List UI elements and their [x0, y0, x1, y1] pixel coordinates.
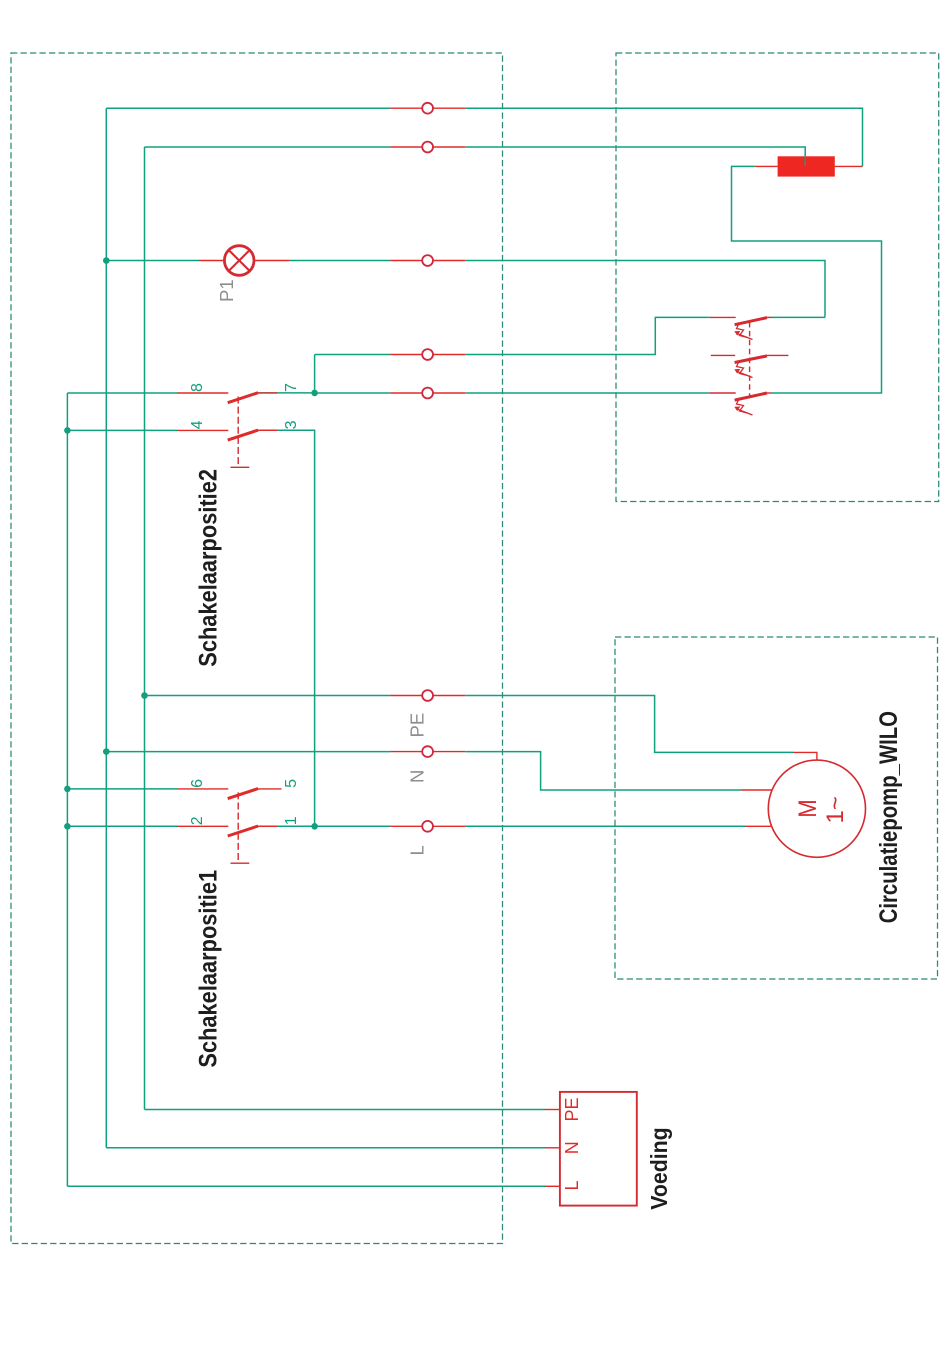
motor L pin	[745, 825, 772, 827]
switch Schakelaarpositie2 pole 4-3	[177, 430, 258, 440]
wire: heater left pin to thermal contact T3	[732, 166, 882, 393]
junction dot: L bus row2	[64, 823, 71, 830]
wire: switch2 pole8 right to junction	[258, 392, 315, 394]
svg-text:N: N	[407, 770, 428, 783]
junction dot: PE bus PE row	[141, 692, 148, 699]
svg-text:Schakelaarpositie1: Schakelaarpositie1	[194, 870, 222, 1068]
junction dot: node contact7	[311, 390, 318, 397]
svg-text:PE: PE	[562, 1097, 582, 1121]
wire: row C-D vertical link	[314, 355, 316, 394]
Voeding PE stub	[545, 1109, 560, 1111]
wire: row D	[315, 392, 391, 394]
pin contact 7	[258, 392, 277, 394]
pin contact 1	[258, 825, 277, 827]
svg-text:8: 8	[189, 383, 206, 392]
svg-text:N: N	[562, 1141, 582, 1154]
junction dot: node contact1	[311, 823, 318, 830]
terminal leads (red) through pass-through terminals	[258, 108, 465, 826]
Voeding L stub	[545, 1185, 560, 1187]
terminal lead L row	[390, 825, 465, 827]
terminal X7 N row	[422, 746, 433, 757]
svg-text:1: 1	[283, 816, 300, 825]
wire: row D right to thermal contact	[465, 392, 710, 394]
svg-text:6: 6	[189, 779, 206, 788]
lamp P1	[199, 246, 289, 276]
wire: thermal T1 right to lamp row vertical	[772, 316, 825, 318]
terminal X4 row C	[422, 349, 433, 360]
boundary box 3 (pump zone, dashed)	[615, 637, 938, 979]
wire: L row to motor	[465, 825, 745, 827]
wire: switch1 pole6 left	[67, 788, 177, 790]
wire: row C right	[465, 317, 710, 354]
terminal X2 row B	[422, 142, 433, 153]
junction dot: L bus row4	[64, 427, 71, 434]
wire: switch2 pole8 left	[67, 392, 177, 394]
wire: Voeding L feed	[67, 1185, 545, 1187]
svg-text:1~: 1~	[822, 796, 849, 823]
wire: lamp row left	[106, 260, 199, 262]
wire: PE row	[145, 695, 391, 697]
motor N pin	[741, 789, 772, 791]
terminal lead lamp row	[390, 260, 465, 262]
svg-text:L: L	[407, 845, 428, 855]
wire: PE row right to motor top	[465, 696, 793, 753]
junction dot: N bus N row	[103, 748, 110, 755]
terminal X8 L row	[422, 821, 433, 832]
terminal X6 PE row	[422, 690, 433, 701]
switch1 mechanical linkage	[231, 792, 250, 863]
wire: Voeding PE feed	[145, 1109, 546, 1111]
terminal lead row C	[390, 354, 465, 356]
svg-text:7: 7	[283, 383, 300, 392]
heater element R1 (filled rect)	[778, 156, 835, 176]
terminal lead row B	[390, 146, 465, 148]
thermal trip linkage (dashed)	[749, 322, 751, 397]
terminal X1 row A	[422, 103, 433, 114]
motor PE pin	[793, 752, 817, 760]
wire: row A horizontal (N to heater right)	[106, 107, 390, 109]
terminal X5 row D	[422, 388, 433, 399]
svg-text:L: L	[562, 1180, 582, 1190]
terminal lead N row	[390, 751, 465, 753]
wire: lamp row mid	[289, 260, 390, 262]
switch Schakelaarpositie1 pole 6-5	[177, 789, 282, 799]
thermal contact T1	[710, 317, 772, 339]
terminal X3 lamp row	[422, 255, 433, 266]
svg-text:M: M	[794, 799, 822, 818]
wire: N bus vertical	[105, 108, 107, 1148]
power source Voeding box	[560, 1092, 637, 1206]
terminal lead row D	[390, 392, 465, 394]
heater right pin	[835, 165, 863, 167]
wire: PE bus vertical	[144, 147, 146, 1110]
switch2 mechanical linkage	[231, 397, 250, 468]
junction dot: N bus lamp row	[103, 257, 110, 264]
wire: row C	[315, 354, 391, 356]
svg-text:3: 3	[283, 420, 300, 429]
wire: N row	[106, 751, 390, 753]
svg-text:Circulatiepomp_WILO: Circulatiepomp_WILO	[875, 711, 903, 923]
svg-text:Schakelaarpositie2: Schakelaarpositie2	[194, 469, 222, 667]
switch Schakelaarpositie1 pole 2-1	[177, 826, 258, 836]
wire: switch2 pole4 left	[67, 429, 177, 431]
svg-text:P1: P1	[216, 279, 237, 302]
Voeding N stub	[545, 1147, 560, 1149]
wire: row A right segment	[465, 108, 862, 166]
boundary box 1 (installation zone, dashed)	[11, 53, 503, 1244]
wire: switch1 pole1 right to terminal L	[258, 825, 390, 827]
thermal contact T3	[710, 393, 772, 415]
motor M1 circulation pump	[741, 752, 866, 857]
thermal contact T2 (spare)	[711, 355, 789, 377]
svg-text:PE: PE	[407, 713, 428, 738]
svg-text:5: 5	[283, 779, 300, 788]
switch Schakelaarpositie2 pole 8-7	[177, 393, 258, 403]
wire: L bus vertical	[66, 393, 68, 1186]
wire: row B horizontal (PE to heater mid)	[145, 146, 391, 148]
terminal lead row A	[390, 107, 465, 109]
wire: switch2 pole3 right	[258, 430, 315, 826]
wire: row B right segment	[465, 147, 805, 166]
boundary box 2 (heater zone, dashed)	[616, 53, 939, 502]
junction dot: L bus row6	[64, 786, 71, 793]
wire: switch1 pole2 left	[67, 825, 177, 827]
wire: lamp row right	[465, 261, 825, 318]
wire: N row right to motor left	[465, 752, 741, 790]
wire: Voeding N feed	[106, 1147, 545, 1149]
svg-text:2: 2	[189, 816, 206, 825]
heater left pin	[755, 165, 778, 167]
terminal lead PE row	[390, 695, 465, 697]
pin contact 3	[258, 429, 277, 431]
svg-text:Voeding: Voeding	[646, 1127, 672, 1210]
svg-text:4: 4	[189, 420, 206, 429]
